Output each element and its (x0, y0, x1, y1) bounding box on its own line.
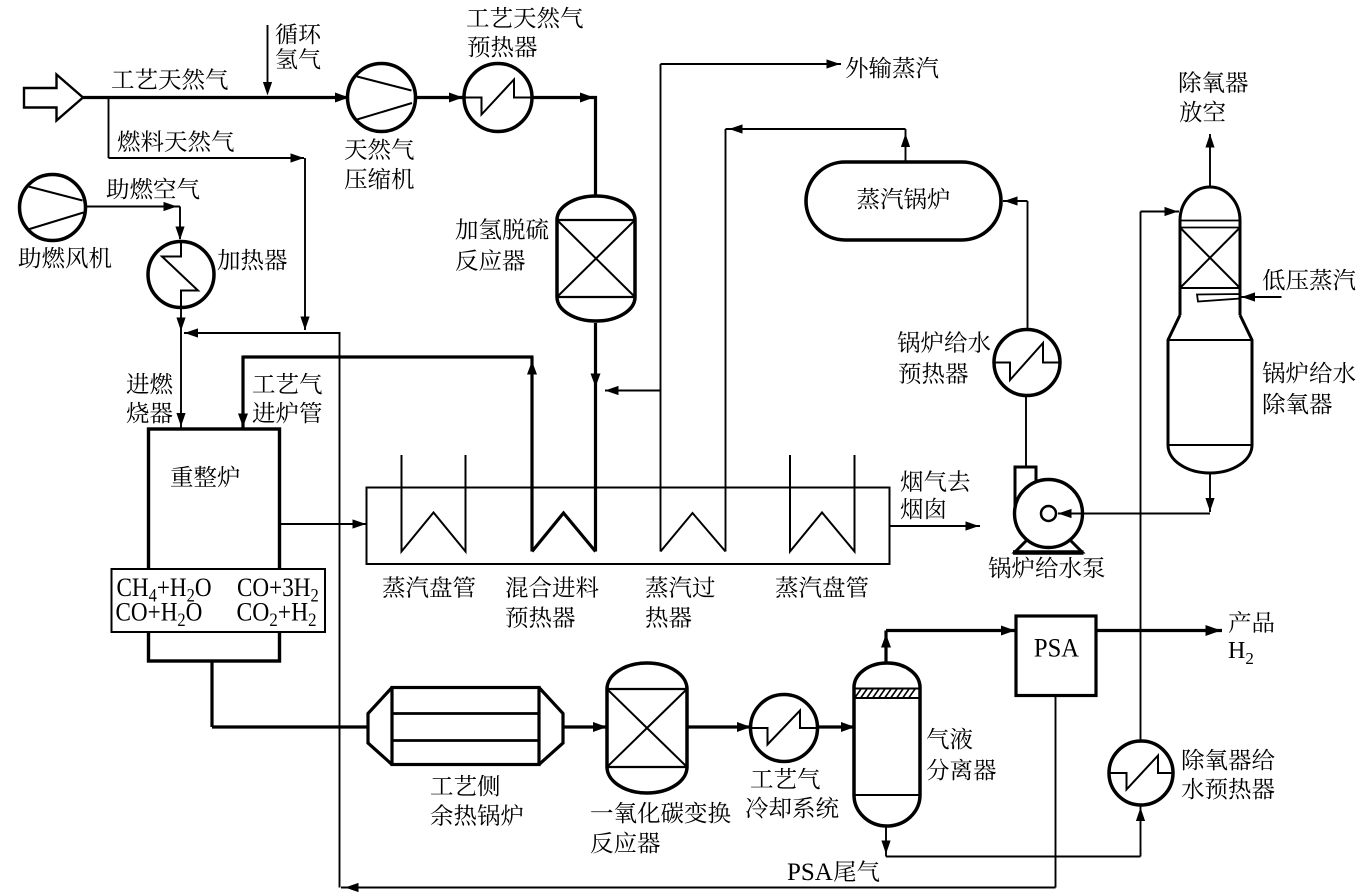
wire fuel gas branch down from main (108, 98, 110, 159)
label 助燃空气 (107, 178, 200, 200)
wire heater outlet to burners (176, 308, 185, 429)
heat exchanger 锅炉给水预热器 (994, 330, 1060, 396)
wire deaerator vent (1205, 134, 1214, 188)
label 天然气压缩机 (345, 138, 414, 189)
wire furnace bottom outlet to waste heat boiler (212, 661, 368, 727)
PSA unit (1016, 616, 1096, 696)
convection box (367, 488, 890, 565)
deaerator 锅炉给水除氧器 (1168, 187, 1252, 473)
label 除氧器放空 (1180, 71, 1248, 122)
wire PSA tailgas riser x=339.5 (339, 333, 341, 888)
label 产品 H2 (1228, 611, 1274, 668)
labels under convection coils (383, 576, 475, 598)
label 循环氢气 (276, 23, 321, 69)
label 工艺天然气 (112, 68, 228, 90)
wire furnace fluegas to convection (280, 519, 368, 528)
label 蒸汽锅炉 (857, 188, 949, 210)
label 除氧器给水预热器 (1182, 749, 1275, 800)
label 锅炉给水预热器 (898, 331, 991, 384)
wire deaerated water feed riser x=1140.5 (1141, 207, 1180, 741)
svg-text:PSA: PSA (1034, 633, 1080, 663)
wire cooler to separator (818, 722, 857, 732)
wire main natural gas y=97.5 to compressor (83, 93, 349, 103)
steam drum 蒸汽锅炉 (806, 162, 1001, 240)
heat exchanger 工艺天然气预热器 (464, 64, 532, 132)
furnace 重整炉 (149, 429, 280, 661)
svg-text:CO+H2O: CO+H2O (116, 598, 203, 630)
label 低压蒸汽 (1263, 269, 1356, 291)
reactor 加氢脱硫反应器 (557, 196, 635, 321)
wire steam injection into process feed (605, 386, 661, 395)
heat exchanger 除氧器给水预热器 (1109, 741, 1173, 805)
wire burner collection header y=333 (184, 328, 341, 337)
wire LP steam (1241, 292, 1282, 301)
feed block arrow 工艺天然气 inlet (24, 75, 83, 121)
wire recycle hydrogen drop (263, 25, 272, 96)
wire preheater down to pump (1025, 396, 1027, 468)
label 加氢脱硫反应器 (456, 218, 549, 271)
wire PSA purge down and across bottom (341, 696, 1056, 893)
svg-text:PSA: PSA (787, 859, 833, 886)
wire BFW preheater to drum (1003, 196, 1028, 329)
label 工艺气冷却系统 (746, 768, 838, 819)
wire CO shift to cooler (687, 722, 753, 732)
coil 蒸汽盘管 #2 (790, 455, 855, 552)
reaction equation box (112, 569, 326, 632)
label 气液分离器 (927, 728, 996, 781)
wire deaerator bottom to pump suction (1205, 473, 1214, 512)
wire preheater to HDS reactor corner (532, 93, 597, 197)
label PSA尾气 (787, 859, 879, 886)
coil 蒸汽过热器 (661, 513, 726, 552)
wire pump suction from deaerator (1041, 506, 1210, 521)
wire separator overhead to PSA (881, 626, 1017, 664)
wire compressor to preheater (416, 93, 465, 103)
wire mixed feed riser x=532 and crossover y=357 into furnace (238, 356, 537, 552)
wire separator bottoms (881, 826, 1140, 857)
wire fuel gas down x=305 (300, 158, 309, 330)
label 烟气去烟囱 (901, 470, 970, 519)
separator 气液分离器 (854, 663, 920, 826)
cooler 工艺气冷却系统 (751, 695, 818, 762)
label 一氧化碳变换反应器 (591, 802, 731, 854)
label 外输蒸汽 (846, 57, 938, 79)
label 燃料天然气 (118, 130, 234, 152)
pump 锅炉给水泵 (1013, 467, 1084, 553)
wire WHB to CO shift (563, 722, 608, 732)
heater 加热器 (148, 242, 214, 308)
label 锅炉给水泵 (989, 557, 1105, 579)
blower 助燃风机 (20, 175, 86, 241)
label 工艺天然气预热器 (467, 7, 583, 58)
label 工艺侧余热锅炉 (431, 775, 523, 826)
label 助燃风机 (19, 247, 112, 269)
wire flue gas to stack (890, 521, 981, 530)
compressor 天然气压缩机 (348, 64, 416, 132)
reactor 一氧化碳变换反应器 (607, 663, 687, 793)
coil 蒸汽盘管 #1 (402, 455, 466, 552)
label 进燃烧器 (127, 373, 173, 424)
wire fuel gas horizontal y=158 (109, 153, 305, 162)
wire product hydrogen (1096, 625, 1222, 636)
label 锅炉给水除氧器 (1263, 362, 1356, 415)
wire superheated steam riser x=660 + export (661, 59, 842, 551)
label 工艺气进炉管 (253, 373, 322, 424)
waste heat boiler 工艺侧余热锅炉 (368, 688, 563, 765)
label 重整炉 (171, 466, 239, 488)
wire HDS outlet down to mixed-feed coil (591, 323, 601, 552)
coil 混合进料预热器 (thick V) (532, 513, 596, 552)
wire combustion air (86, 202, 185, 240)
wire condensate to DA preheater (1136, 807, 1145, 857)
label 加热器 (218, 249, 287, 271)
wire drum steam to superheater coil (726, 124, 911, 551)
